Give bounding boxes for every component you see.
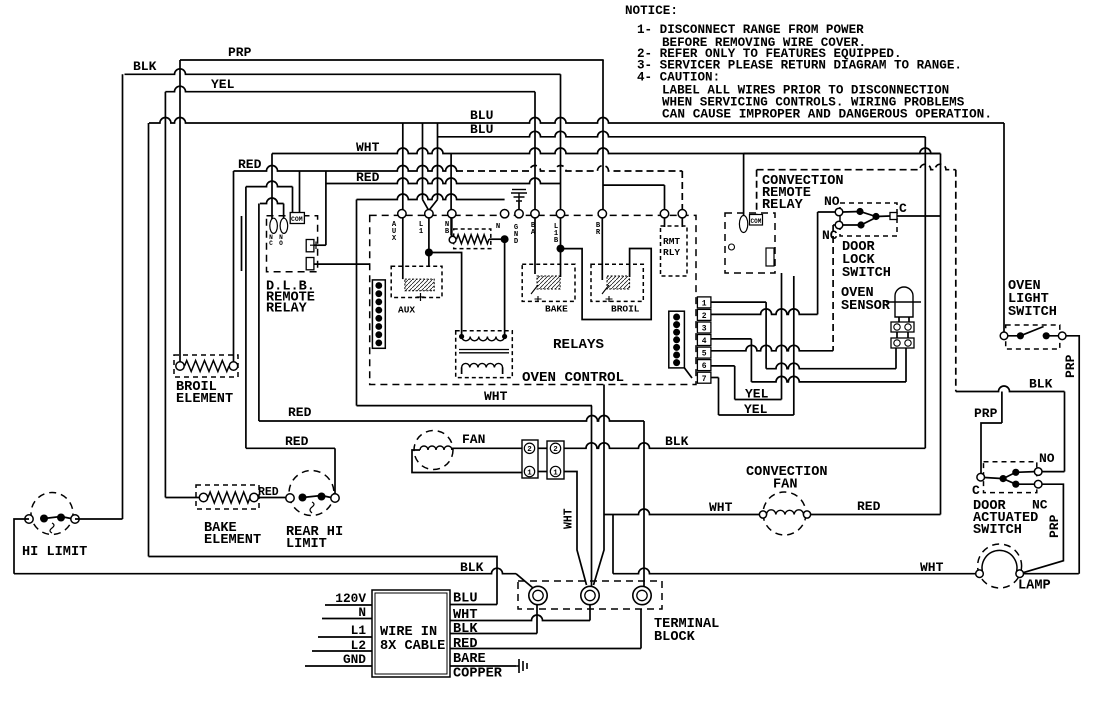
wire RED mid 2: [246, 447, 335, 449]
bake element right terminal: [250, 493, 258, 501]
DLB remote relay dashed box: [267, 216, 318, 272]
ground symbol bars: [512, 189, 526, 191]
terminal AUX: [398, 210, 406, 218]
wire left PRP vertical: [179, 60, 181, 366]
wire stub L1: [318, 636, 372, 638]
wire sensor lower: [766, 363, 896, 368]
fan terminal B2: [550, 443, 560, 453]
door actuated switch dashed box: [984, 462, 1037, 493]
oven control dashed box: [370, 215, 696, 384]
wire BLK bus drop to L1B: [560, 74, 562, 209]
wire WHT bottom: [357, 405, 593, 407]
DLB coil NO: [280, 218, 288, 233]
junction L1 node: [425, 249, 433, 257]
svg-text:BROIL: BROIL: [611, 304, 640, 315]
svg-text:2: 2: [702, 312, 707, 321]
svg-text:SWITCH: SWITCH: [842, 266, 891, 281]
junction primary right: [502, 334, 507, 339]
terminal block lug 3: [633, 586, 651, 604]
wire RED row 1 solid: [234, 166, 457, 172]
broil element left terminal: [176, 362, 184, 370]
wire oven control right drop: [603, 385, 605, 515]
wire conv com feed: [756, 170, 758, 215]
connector strip right pin: [673, 344, 680, 351]
wire oven light right: [1066, 336, 1079, 574]
connector pin box 7: [697, 372, 711, 383]
ground symbol top: [511, 193, 527, 202]
wire PRP bus: [180, 59, 604, 61]
wire PRP bus drop to BR: [602, 60, 604, 210]
door actuated contact dot 3: [1012, 481, 1019, 488]
oven light contact dot 1: [1017, 332, 1024, 339]
terminal GND: [515, 210, 523, 218]
relay BAKE arrow: [531, 285, 542, 302]
wire YEL 2: [719, 414, 794, 416]
svg-text:BLOCK: BLOCK: [654, 630, 696, 645]
wire YEL bus drop to BA: [534, 92, 536, 210]
DLB contact block 2: [306, 258, 314, 270]
terminal block dashed box: [518, 581, 662, 609]
wire DLB right riser: [325, 171, 327, 245]
relay BROIL coil: [607, 276, 630, 289]
svg-text:WHT: WHT: [709, 500, 733, 515]
wire lamp line converge: [594, 515, 605, 586]
relay BROIL plus: [602, 285, 613, 302]
wire L1 drop b: [437, 123, 439, 200]
wire lamp to PRP: [1024, 573, 1079, 575]
oven light contact dot 2: [1043, 332, 1050, 339]
svg-text:C: C: [972, 483, 980, 498]
wire pin4 drop: [750, 339, 752, 382]
hi limit contact dot 2: [57, 514, 65, 522]
fan terminal box A: [522, 440, 538, 478]
svg-text:FAN: FAN: [462, 432, 485, 447]
wire DLB NO down to red: [258, 204, 260, 422]
svg-text:RELAYS: RELAYS: [553, 337, 604, 353]
svg-text:RED: RED: [285, 434, 309, 449]
svg-text:RED: RED: [288, 405, 312, 420]
wire fan bridge top: [538, 447, 547, 449]
wire YEL 2 riser: [793, 276, 795, 415]
wire BLU 2: [438, 131, 926, 137]
wire WHT row: [272, 148, 941, 154]
wire fan right lead: [452, 448, 522, 450]
svg-text:NO: NO: [1039, 451, 1055, 466]
connector strip left: [372, 280, 385, 348]
resistor R1: [457, 235, 490, 244]
svg-text:SWITCH: SWITCH: [1008, 305, 1057, 320]
svg-text:COM: COM: [751, 218, 762, 225]
terminal block lug 2: [581, 586, 599, 604]
door actuated contact dot 2: [1012, 469, 1019, 476]
wire BR branch drop: [664, 185, 666, 209]
connector strip right pin: [673, 329, 680, 336]
wire BLK bus: [125, 69, 561, 74]
wire yel to bake: [165, 497, 199, 499]
wire stub 120V: [325, 604, 372, 606]
svg-text:1: 1: [419, 228, 424, 236]
wire pin7 drop: [718, 378, 720, 416]
wire DLB link: [246, 181, 293, 186]
oven sensor connector lower: [891, 338, 914, 348]
svg-text:1- DISCONNECT RANGE FROM POWER: 1- DISCONNECT RANGE FROM POWER: [637, 23, 864, 37]
door lock contact dot 2: [872, 213, 879, 220]
conv relay com block: [750, 215, 763, 226]
svg-text:RED: RED: [453, 637, 477, 652]
wire YEL bus: [165, 86, 535, 91]
svg-text:BLK: BLK: [133, 59, 157, 74]
junction node N-resistor: [501, 235, 509, 243]
svg-text:BLU: BLU: [470, 108, 493, 123]
convection fan coil: [767, 510, 804, 515]
wire stub L2: [312, 650, 372, 652]
transformer T1 primary: [462, 337, 505, 341]
wire stub N: [322, 618, 372, 620]
svg-text:1: 1: [527, 469, 532, 477]
svg-text:5: 5: [702, 350, 707, 359]
wire NB to resistor: [451, 218, 453, 236]
wire bake U path: [561, 249, 652, 320]
wire BR into broil: [601, 218, 603, 280]
wire fan1 to terminal: [564, 472, 587, 586]
resistor dashed box: [454, 229, 491, 249]
svg-text:HI LIMIT: HI LIMIT: [22, 545, 87, 560]
svg-text:D: D: [514, 238, 519, 246]
svg-text:LIMIT: LIMIT: [286, 537, 327, 552]
wire DLB inner lead: [241, 216, 243, 271]
connector pin box 4: [697, 335, 711, 346]
wire RED mid1 drop to terminal3: [643, 421, 645, 588]
svg-text:COPPER: COPPER: [453, 667, 503, 682]
wire fan bridge bottom: [538, 471, 547, 473]
relay BAKE dashed box: [522, 264, 575, 301]
oven sensor leads: [899, 317, 909, 322]
wire GND stem: [518, 202, 520, 210]
svg-text:C: C: [269, 240, 273, 247]
svg-text:X: X: [392, 235, 397, 243]
rear hi limit dashed circle: [289, 471, 334, 516]
terminal BR: [598, 210, 606, 218]
svg-text:RELAY: RELAY: [762, 198, 804, 213]
svg-text:B: B: [445, 228, 450, 236]
wire RED drop to DLB com: [299, 171, 301, 216]
wire pin6 drop: [734, 366, 736, 400]
connector strip left pin: [375, 307, 382, 314]
wire PRP door riser: [1001, 392, 1003, 424]
wire N to transformer: [504, 243, 506, 337]
DLB COM block: [290, 213, 304, 224]
svg-text:SENSOR: SENSOR: [841, 299, 891, 314]
wire L1 converge: [423, 200, 438, 210]
wire row6 left drop: [356, 200, 358, 406]
wire pin5: [711, 345, 833, 351]
convection fan dashed circle: [763, 492, 806, 535]
fan dashed circle: [414, 431, 453, 470]
wire fan left lead: [412, 450, 522, 473]
rear hi limit contact dot 2: [318, 493, 326, 501]
wire RED row 1 dashed: [456, 166, 682, 172]
door lock contact arms: [843, 212, 890, 226]
svg-text:AUX: AUX: [398, 305, 415, 316]
DLB contact block 1: [306, 240, 314, 252]
oven light switch dashed box: [1006, 325, 1060, 349]
svg-text:BLK: BLK: [1029, 377, 1053, 392]
svg-text:O: O: [279, 240, 283, 247]
wire pin1: [711, 301, 766, 303]
wire L1 down: [428, 218, 430, 266]
hi limit left terminal: [25, 515, 33, 523]
wire convection up right: [940, 154, 942, 515]
connector strip left pin: [375, 340, 382, 347]
svg-text:PRP: PRP: [974, 406, 998, 421]
svg-text:B: B: [554, 237, 559, 245]
svg-text:7: 7: [702, 375, 707, 384]
svg-text:FAN: FAN: [773, 478, 797, 493]
door lock NC terminal: [835, 221, 843, 229]
wire RED vertical to broil: [233, 171, 235, 366]
svg-text:BAKE: BAKE: [545, 304, 568, 315]
wire door actuated NO: [1042, 471, 1065, 473]
connector strip right pin: [673, 314, 680, 321]
terminal RMT1: [660, 210, 668, 218]
svg-text:WHT: WHT: [920, 560, 944, 575]
wire BLK diag to terminal1: [516, 574, 533, 588]
oven sensor bulb: [895, 287, 913, 317]
wire WHT vertical to DLB: [271, 154, 273, 220]
wire BLU branch upper: [149, 557, 498, 605]
fan terminal B1: [550, 466, 560, 476]
DLB contact cross 1: [310, 242, 318, 250]
wire DLB out lower: [314, 263, 370, 265]
relay AUX coil: [405, 279, 434, 291]
oven sensor bar: [886, 301, 921, 303]
wire sensor bottom riser: [905, 348, 907, 382]
wire WHT convection: [604, 509, 759, 515]
wire DLB no drop: [283, 204, 285, 219]
junction L1B node: [557, 245, 565, 253]
wire sensor lower riser: [895, 348, 897, 369]
wire pin6: [711, 365, 735, 367]
rear hi limit contact dot 1: [299, 494, 307, 502]
terminal RMT2: [678, 210, 686, 218]
resistor left terminal: [449, 236, 456, 243]
wire RED cable: [450, 648, 641, 650]
fan motor coil: [420, 446, 452, 450]
wire left BLK vertical: [122, 74, 124, 519]
wire YEL 1: [735, 399, 782, 401]
wire RED cable riser: [640, 609, 642, 649]
wire DLB out upper: [314, 244, 326, 246]
svg-text:3: 3: [702, 325, 707, 334]
wire BLK door: [956, 386, 1065, 391]
door actuated NC terminal: [1034, 480, 1042, 488]
lamp dashed circle: [978, 544, 1022, 588]
terminal N: [500, 210, 508, 218]
transformer dashed box: [456, 331, 513, 378]
door actuated NO terminal: [1034, 468, 1042, 476]
wire blu2 down right: [924, 137, 926, 449]
terminal L1: [425, 210, 433, 218]
connector pin box 2: [697, 309, 711, 320]
wire BARE COPPER: [450, 665, 516, 667]
terminal BA: [531, 210, 539, 218]
connector strip left pin: [375, 290, 382, 297]
connector strip right pin: [673, 352, 680, 359]
wire WHT drop mid terminal: [591, 406, 593, 585]
wire oven light feed: [1003, 123, 1005, 332]
door lock switch dashed box: [840, 203, 897, 236]
svg-text:ELEMENT: ELEMENT: [176, 392, 233, 407]
connector pin box 6: [697, 360, 711, 371]
wire BLK cable riser: [536, 605, 538, 634]
rear hi limit squiggle: [310, 502, 314, 513]
svg-text:PRP: PRP: [1063, 354, 1078, 378]
svg-text:6: 6: [702, 362, 707, 371]
fan terminal A1: [524, 466, 534, 476]
relay BROIL dashed box: [591, 264, 643, 301]
svg-text:ELEMENT: ELEMENT: [204, 533, 261, 548]
conv relay coil: [739, 216, 747, 233]
svg-text:2: 2: [527, 446, 532, 454]
svg-text:BLK: BLK: [453, 622, 478, 637]
connector strip left pin: [375, 299, 382, 306]
svg-text:L1: L1: [351, 623, 367, 638]
RMT RLY dashed box: [661, 226, 688, 276]
oven sensor link: [897, 332, 908, 338]
svg-text:4- CAUTION:: 4- CAUTION:: [637, 71, 720, 85]
door actuated arms: [985, 472, 1035, 485]
wire L1B down: [560, 218, 562, 277]
wire RMT terminal 1: [664, 218, 666, 227]
svg-text:1: 1: [553, 469, 558, 477]
wire row6 to N: [357, 194, 505, 200]
svg-text:RELAY: RELAY: [266, 302, 308, 317]
fan terminal box B: [547, 441, 564, 479]
svg-text:C: C: [899, 201, 907, 216]
svg-text:BLU: BLU: [470, 122, 493, 137]
connector strip right: [669, 311, 685, 368]
wire RED convection: [811, 514, 941, 516]
wire RED mid2 drop: [334, 448, 336, 494]
door lock contact dot 1: [856, 208, 863, 215]
oven sensor connector upper pins: [894, 324, 900, 330]
connector strip left pin: [375, 282, 382, 289]
rear hi limit left terminal: [286, 494, 294, 502]
wire pin4: [711, 338, 751, 340]
door lock contact dot 3: [857, 221, 864, 228]
wire dashed top right: [757, 164, 956, 170]
connector strip right pin: [673, 336, 680, 343]
transformer core lines: [459, 350, 509, 353]
svg-text:1: 1: [702, 300, 707, 309]
wire left BLU vertical: [148, 123, 150, 557]
wire door lock C right: [897, 215, 941, 217]
junction primary left: [459, 334, 464, 339]
svg-text:PRP: PRP: [1047, 514, 1062, 538]
convection fan right terminal: [803, 511, 810, 518]
hi limit right terminal: [71, 515, 79, 523]
wire pin2: [711, 309, 818, 315]
connector strip left pin: [375, 323, 382, 330]
door actuated contact dot 1: [1000, 475, 1007, 482]
wire BR branch: [603, 184, 665, 186]
hi limit contact arm: [44, 517, 71, 519]
svg-text:RED: RED: [238, 157, 262, 172]
wire RED mid 1: [259, 416, 644, 422]
wire hi limit left: [14, 519, 29, 574]
wire secondary right lead: [502, 368, 504, 375]
connector strip right tail: [684, 368, 692, 378]
wire WHT lamp: [613, 568, 980, 574]
wire RED row1 drop to terminal: [681, 171, 683, 210]
conv relay contact block: [766, 248, 774, 266]
wire door lock NO left: [818, 211, 835, 213]
wire WHT cable riser: [589, 605, 591, 621]
wire L1 drop a: [422, 123, 424, 200]
bake element left terminal: [199, 493, 207, 501]
wire YEL 1 riser: [781, 273, 783, 400]
svg-text:2: 2: [553, 446, 558, 454]
wire BLK bottom long: [14, 568, 516, 574]
connector strip right pin: [673, 321, 680, 328]
svg-text:OVEN CONTROL: OVEN CONTROL: [522, 370, 624, 386]
wire bake to rearhi: [258, 497, 286, 499]
svg-text:BLK: BLK: [665, 434, 689, 449]
resistor bake element: [208, 492, 250, 503]
svg-text:SWITCH: SWITCH: [973, 523, 1022, 538]
wire pin7: [711, 377, 719, 379]
svg-text:WIRE IN: WIRE IN: [380, 625, 437, 640]
wire hi limit right: [75, 518, 123, 520]
terminal L1B: [556, 210, 564, 218]
wire door lock NC drop: [832, 225, 834, 351]
wire stub GND: [305, 665, 372, 667]
terminal block lug 1: [529, 586, 547, 604]
transformer T1 secondary: [462, 363, 503, 367]
connector strip left pin: [375, 315, 382, 322]
wire WHT mid drop: [591, 585, 593, 587]
svg-text:4: 4: [702, 337, 707, 346]
wire PRP door路: [981, 423, 1002, 474]
fan terminal A2: [524, 443, 534, 453]
hi limit squiggle: [50, 523, 54, 533]
connector pin box 3: [697, 322, 711, 333]
hi limit contact dot 1: [40, 515, 48, 523]
wire AUX drop: [402, 123, 404, 210]
wire resistor to node: [489, 238, 505, 240]
wire BLK cable: [450, 633, 537, 635]
connector strip right pin: [673, 359, 680, 366]
DLB coil NC: [270, 218, 278, 233]
bake element dashed box: [196, 485, 259, 509]
wire BA into bake area: [534, 218, 536, 274]
svg-text:120V: 120V: [335, 591, 366, 606]
svg-text:COM: COM: [291, 216, 303, 223]
wire secondary left lead: [461, 368, 463, 375]
svg-text:LAMP: LAMP: [1018, 579, 1051, 594]
connector strip left pin: [375, 331, 382, 338]
connector pin box 1: [697, 297, 711, 308]
wire door actuated NC: [1020, 484, 1064, 574]
conv relay pin circle: [729, 244, 735, 250]
oven light switch left terminal: [1000, 332, 1008, 340]
relay AUX plus: [417, 293, 425, 301]
rear hi limit right terminal: [331, 494, 339, 502]
wire BLK door drop: [1064, 392, 1066, 472]
wire AUX terminal into box: [402, 218, 404, 279]
svg-text:BLK: BLK: [460, 560, 484, 575]
svg-text:PRP: PRP: [228, 45, 252, 60]
